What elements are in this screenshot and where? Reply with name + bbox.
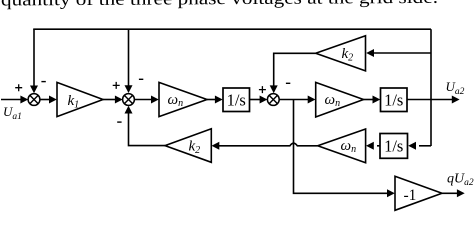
gain -1 triangle xyxy=(395,176,442,210)
svg-text:1/s: 1/s xyxy=(384,90,403,109)
label qUa2 xyxy=(447,172,474,189)
label k2 bottom xyxy=(189,139,201,157)
wire I1 to S3 xyxy=(250,96,268,104)
wire S3 to wn2 with branch node xyxy=(279,96,315,104)
integrator I1 block 1/s xyxy=(223,88,250,112)
sign plus at S2 xyxy=(113,82,120,89)
wire wn3 to k2 bottom with hop over vertical xyxy=(212,142,318,150)
summing junction S3 xyxy=(267,94,279,106)
label -1 xyxy=(404,187,417,204)
integrator I3 block 1/s xyxy=(380,134,408,159)
sign minus at S2 bottom xyxy=(117,121,121,123)
wire I3 to wn3 xyxy=(366,142,380,150)
svg-text:k2: k2 xyxy=(342,46,354,64)
svg-text:-1: -1 xyxy=(404,187,417,204)
wire branch node down to inverter row xyxy=(294,100,395,198)
sign plus at S1 xyxy=(15,84,22,91)
svg-text:ωn: ωn xyxy=(341,138,357,155)
sign plus at S3 xyxy=(259,86,266,93)
sign minus at S2 top xyxy=(139,78,143,80)
wire k2 top output to summing junction S3 xyxy=(270,53,316,93)
label Ua2 xyxy=(446,79,465,97)
summing junction S1 xyxy=(28,94,40,106)
wire S1 to k1 xyxy=(40,96,57,104)
node Ua1 input wire xyxy=(1,96,28,104)
svg-text:ωn: ωn xyxy=(168,92,184,109)
gain k2 bottom triangle pointing left xyxy=(165,129,211,163)
gain wn2 triangle xyxy=(316,82,364,117)
gain k2 top triangle xyxy=(316,36,366,71)
svg-text:k2: k2 xyxy=(189,139,201,157)
wire qUa2 output xyxy=(442,189,465,197)
wire S2 to wn1 xyxy=(135,96,159,104)
integrator I2 block 1/s xyxy=(381,88,408,112)
svg-text:1/s: 1/s xyxy=(384,137,403,156)
wire right vertical U_a2 feedback bus xyxy=(430,29,432,146)
wire into gain k2 top xyxy=(366,49,431,57)
svg-text:quantity of the three phase vo: quantity of the three phase voltages at … xyxy=(1,0,438,9)
wire k1 to S2 xyxy=(103,96,123,104)
wire wn2 to integrator I2 xyxy=(364,96,381,104)
wire U_a2 bus into integrator I3 xyxy=(408,142,431,150)
svg-text:k1: k1 xyxy=(68,93,80,111)
wire wn1 to integrator I1 xyxy=(207,96,223,104)
sign minus at S3 top xyxy=(286,82,290,84)
wire drop to summing junction S1 xyxy=(30,29,38,93)
svg-text:Ua1: Ua1 xyxy=(3,104,22,122)
summing junction S2 xyxy=(123,94,135,106)
label Ua1 xyxy=(3,104,22,122)
label k2 top xyxy=(342,46,354,64)
gain wn3 triangle pointing left xyxy=(318,129,366,163)
label wn3 xyxy=(341,138,357,155)
caption text cropped at top xyxy=(1,0,438,9)
wire k2 bottom to S2 bottom xyxy=(125,106,166,146)
wire top feedback horizontal xyxy=(33,28,431,30)
label k1 xyxy=(68,93,80,111)
svg-text:ωn: ωn xyxy=(325,92,341,109)
svg-text:1/s: 1/s xyxy=(227,90,246,109)
gain k1 triangle xyxy=(57,82,103,116)
label wn2 xyxy=(325,92,341,109)
gain wn1 triangle xyxy=(159,82,207,116)
svg-text:qUa2: qUa2 xyxy=(447,172,474,189)
wire output Ua2 xyxy=(407,96,460,104)
svg-text:Ua2: Ua2 xyxy=(446,79,465,97)
wire drop to summing junction S2 xyxy=(125,29,133,93)
label wn1 xyxy=(168,92,184,109)
sign minus at S1 top xyxy=(41,81,45,83)
